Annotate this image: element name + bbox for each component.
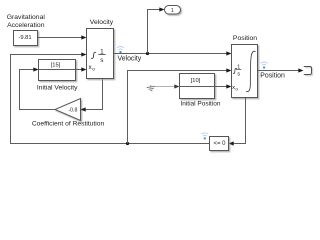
wire Velocity state port (bottom) to gain input	[81, 79, 103, 112]
gain -0.8 Coefficient of Restitution	[55, 99, 81, 121]
signal label Position	[260, 73, 285, 80]
wire reset branch to Position port2	[128, 68, 232, 143]
svg-text:<= 0: <= 0	[213, 141, 226, 147]
svg-text:Velocity: Velocity	[90, 19, 114, 26]
svg-text:o: o	[92, 68, 95, 73]
wire Velocity output to Position port1	[114, 51, 232, 55]
logging badge on position signal	[261, 62, 268, 68]
label Coefficient of Restitution	[32, 120, 105, 127]
wire Position output to outport 2	[258, 68, 304, 72]
compare to zero block <= 0	[210, 137, 229, 151]
outport 2 (clipped at edge)	[304, 67, 313, 76]
svg-text:Initial Velocity: Initial Velocity	[37, 84, 78, 91]
saturation integral curve	[246, 51, 255, 91]
integrator U1 Velocity	[87, 29, 114, 79]
wire constant to Velocity port1	[38, 35, 87, 39]
IC block Initial Position [10]	[180, 74, 215, 99]
reset trigger glyph	[233, 68, 237, 73]
IC block Initial Velocity [15]	[39, 60, 76, 81]
svg-text:s: s	[100, 57, 103, 64]
svg-text:-9.81: -9.81	[18, 35, 31, 41]
svg-text:Gravitational: Gravitational	[7, 14, 46, 21]
node junction on velocity wire	[146, 52, 149, 55]
svg-text:Velocity: Velocity	[118, 56, 142, 63]
svg-text:[15]: [15]	[51, 62, 61, 68]
logging badge on velocity signal	[117, 47, 124, 53]
outport 1	[165, 6, 181, 15]
reset trigger glyph	[91, 52, 96, 58]
wire gain output to IC Initial Velocity	[20, 70, 56, 110]
integrator U2 Position (with saturation)	[232, 45, 258, 98]
wire Position state port (bottom) to compare input	[229, 98, 246, 146]
label Position (block name)	[233, 35, 257, 42]
svg-text:s: s	[237, 71, 240, 77]
svg-text:Coefficient of Restitution: Coefficient of Restitution	[32, 120, 105, 127]
wire through IC to Velocity port3 x0	[33, 67, 86, 71]
ground block	[146, 85, 155, 92]
node junction on reset wire	[126, 142, 129, 145]
logging badge on compare output	[201, 133, 208, 139]
svg-text:-0.8: -0.8	[68, 107, 77, 113]
wire through IC to Position port3 x0	[180, 84, 232, 88]
label Initial Velocity	[37, 84, 78, 91]
svg-text:[10]: [10]	[191, 78, 201, 84]
label Gravitational Acceleration	[7, 14, 46, 29]
wire reset feedback (compare output to Velocity port2)	[11, 52, 210, 143]
svg-text:Initial Position: Initial Position	[180, 100, 220, 107]
svg-text:1: 1	[171, 8, 174, 14]
svg-text:Acceleration: Acceleration	[7, 22, 45, 29]
wire branch to outport 1	[148, 7, 165, 53]
svg-text:Position: Position	[233, 35, 257, 42]
label Velocity (block name)	[90, 19, 114, 26]
label Initial Position	[180, 100, 220, 107]
wire ground to IC Initial Position	[155, 84, 180, 88]
constant block -9.81	[14, 31, 38, 46]
svg-text:Position: Position	[260, 73, 285, 80]
signal label Velocity	[118, 56, 142, 63]
